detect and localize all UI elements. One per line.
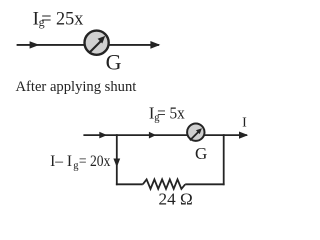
svg-text:= 5x: = 5x (157, 104, 185, 123)
wire: left branch vertical (116, 134, 118, 185)
arrowhead: input current (99, 132, 107, 139)
wire: top figure horizontal (17, 44, 159, 46)
galvanometer G2 needle (190, 128, 202, 140)
svg-text:I– I: I– I (50, 153, 72, 170)
wire: right branch vertical (223, 134, 225, 185)
arrowhead: output current I (239, 132, 248, 139)
label I - Ig = 20x (50, 153, 111, 171)
galvanometer G1 body (85, 31, 109, 55)
galvanometer G1 needle (90, 36, 106, 53)
svg-text:I: I (242, 116, 247, 131)
wire: bottom rail right of resistor (185, 183, 224, 185)
wire: shunt circuit top rail (83, 134, 247, 136)
arrowhead: current into galvanometer G1 (30, 41, 40, 48)
label Ig = 5x (149, 104, 186, 124)
label Ig = 25x (33, 8, 84, 29)
svg-text:G: G (106, 49, 122, 74)
galvanometer G2 body (187, 124, 204, 141)
svg-text:After applying shunt: After applying shunt (16, 78, 138, 95)
resistor R (24 ohm) zigzag (143, 179, 185, 189)
arrowhead: Ig toward galvanometer G2 (149, 132, 156, 139)
svg-text:= 25x: = 25x (41, 8, 84, 29)
arrowhead: top figure right output (150, 41, 160, 49)
svg-text:= 20x: = 20x (79, 153, 111, 170)
svg-text:24 Ω: 24 Ω (159, 190, 193, 209)
svg-text:G: G (195, 144, 207, 163)
wire: bottom rail left of resistor (116, 183, 143, 185)
arrowhead: shunt current down (113, 159, 120, 168)
